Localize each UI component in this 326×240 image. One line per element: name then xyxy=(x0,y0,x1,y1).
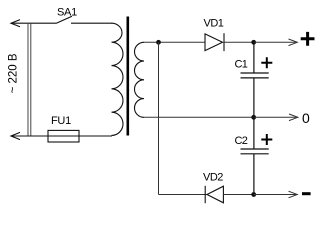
diode VD1 xyxy=(205,33,224,51)
wire: tap down to negative rail xyxy=(158,42,160,194)
wire: 0 rail from secondary bottom xyxy=(144,116,254,118)
wire: SA1 to primary winding xyxy=(71,22,112,24)
svg-text:~ 220 В: ~ 220 В xyxy=(8,53,20,93)
transformer secondary winding xyxy=(135,42,145,117)
wire: VD2 anode to minus node xyxy=(223,194,253,196)
arrow: mains neutral lead tip xyxy=(11,132,20,139)
capacitor C1 xyxy=(241,42,269,117)
junction: zero node xyxy=(251,115,256,120)
switch SA1 blade xyxy=(56,16,72,23)
transformer T1 primary winding xyxy=(112,23,124,135)
junction: secondary top node xyxy=(156,40,161,45)
svg-text:SA1: SA1 xyxy=(57,7,77,19)
arrow: mains phase lead tip xyxy=(11,20,20,27)
svg-text:C1: C1 xyxy=(235,58,248,70)
polarity + of C2 xyxy=(261,134,272,145)
polarity + of C1 xyxy=(261,57,272,68)
wire: secondary top to VD1 anode xyxy=(144,41,205,43)
wire: VD1 cathode to plus node xyxy=(224,41,254,43)
arrow: minus output xyxy=(254,191,298,198)
capacitor C2 xyxy=(241,117,269,194)
transformer core xyxy=(127,17,130,136)
wire through fuse xyxy=(48,135,79,137)
wire: negative rail to VD2 cathode xyxy=(159,194,208,196)
svg-text:C2: C2 xyxy=(235,135,248,147)
junction: minus output node xyxy=(251,192,256,197)
junction: plus output node xyxy=(251,40,256,45)
wire: top mains lead (phase) xyxy=(11,22,56,24)
fuse FU1 xyxy=(48,130,79,142)
wire: bottom mains lead (neutral) xyxy=(11,135,112,137)
terminal + (positive output) xyxy=(301,32,315,46)
svg-text:VD1: VD1 xyxy=(204,18,224,30)
terminal − (negative output) xyxy=(302,192,311,195)
arrow: plus output xyxy=(254,39,298,46)
svg-text:FU1: FU1 xyxy=(51,115,71,127)
mains cord double line xyxy=(28,23,31,136)
diode VD2 xyxy=(205,186,223,203)
svg-text:0: 0 xyxy=(302,110,310,126)
svg-text:VD2: VD2 xyxy=(203,172,223,184)
arrow: zero output xyxy=(254,114,298,121)
